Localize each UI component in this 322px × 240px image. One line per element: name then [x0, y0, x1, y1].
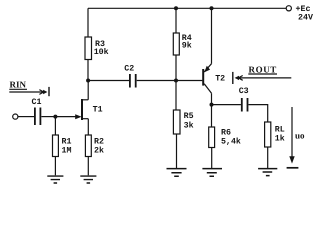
svg-text:RIN: RIN [10, 80, 27, 90]
svg-text:2k: 2k [94, 146, 104, 156]
label ROUT with arrow [233, 64, 291, 84]
arrow uo output voltage [287, 107, 305, 168]
wire T2 collector to node C [211, 93, 213, 104]
ground under RL [258, 169, 277, 176]
label RIN with arrow [9, 80, 49, 97]
svg-text:1M: 1M [62, 147, 72, 156]
svg-text:T2: T2 [215, 74, 225, 83]
ground under R2 [80, 176, 96, 183]
wire C2 to node B [137, 80, 176, 82]
node A (drain / C2 junction) [86, 79, 90, 83]
wire T2 emitter to rail [211, 8, 213, 63]
wire node C to R6 [211, 105, 213, 127]
node rail-R4 junction [174, 6, 178, 10]
svg-text:C3: C3 [239, 87, 249, 96]
node rail-T2 junction [210, 6, 214, 10]
resistor R3 [85, 37, 109, 60]
terminal +Ec [286, 6, 291, 11]
resistor R6 [209, 127, 241, 148]
wire C1 to node D [41, 116, 55, 118]
resistor RL [265, 122, 285, 147]
resistor R4 [173, 33, 191, 55]
svg-text:24V: 24V [298, 13, 313, 22]
capacitor C3 [239, 87, 249, 111]
wire R5 bottom to ground [176, 134, 178, 168]
label +Ec 24V [296, 5, 313, 22]
wire R2 bottom to ground [87, 157, 89, 176]
wire node D to R1 [54, 117, 56, 135]
svg-text:C2: C2 [124, 65, 134, 74]
wire R3 bottom to node A [87, 60, 89, 81]
wire R6 bottom to ground [211, 148, 213, 169]
ground under R5 [167, 169, 187, 177]
transistor T2 [203, 64, 225, 94]
terminal input [13, 114, 18, 119]
wire T1 drain to node A [87, 81, 89, 100]
wire node C to C3 [212, 104, 241, 106]
capacitor C2 [124, 65, 135, 88]
wire node B to R5 [175, 81, 177, 111]
svg-text:RL: RL [275, 125, 285, 134]
wire R4 bottom to node B [175, 55, 177, 81]
svg-text:9k: 9k [182, 41, 192, 51]
node B (R4/R5/base junction) [174, 79, 178, 83]
wire R3 top (rail to R3) [87, 8, 89, 37]
wire node A to C2 [88, 80, 129, 82]
svg-text:C1: C1 [32, 98, 42, 107]
svg-text:R2: R2 [94, 137, 104, 146]
resistor R5 [173, 110, 193, 134]
svg-text:1k: 1k [275, 133, 285, 143]
svg-text:5,4k: 5,4k [221, 136, 241, 146]
svg-text:R5: R5 [184, 112, 194, 121]
svg-text:uo: uo [295, 130, 305, 140]
node C (collector / R6 / C3 junction) [210, 103, 214, 107]
wire rail to R4 [175, 8, 177, 33]
ground under R1 [47, 176, 63, 183]
wire top supply rail [88, 7, 286, 9]
wire R1 bottom to ground [54, 157, 56, 176]
svg-text:T1: T1 [93, 106, 103, 115]
node D (R1 / gate junction) [53, 115, 57, 119]
resistor R2 [85, 135, 104, 157]
wire RL bottom to ground [267, 147, 269, 168]
capacitor C1 [32, 98, 42, 125]
wire input terminal to C1 [18, 116, 34, 118]
resistor R1 [53, 135, 72, 157]
ground under R6 [202, 169, 222, 177]
transistor T1 [75, 99, 102, 120]
wire C3 to RL [249, 105, 268, 122]
svg-text:3k: 3k [184, 120, 194, 130]
svg-text:ROUT: ROUT [249, 64, 277, 74]
svg-text:R6: R6 [221, 128, 231, 137]
wire T1 source to R2 [87, 119, 89, 135]
svg-text:R1: R1 [62, 137, 72, 146]
svg-text:10k: 10k [94, 47, 109, 57]
wire node B to T2 base [176, 80, 202, 82]
wire node D to gate arrow [55, 116, 76, 118]
